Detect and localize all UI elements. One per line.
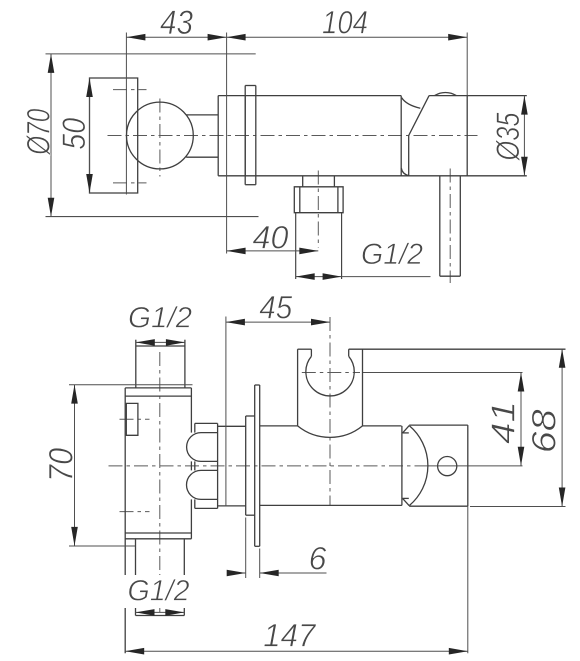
svg-text:41: 41	[485, 401, 522, 444]
svg-text:G1/2: G1/2	[361, 238, 423, 271]
svg-text:104: 104	[322, 5, 368, 41]
svg-text:Ø70: Ø70	[20, 109, 56, 156]
svg-text:43: 43	[160, 4, 193, 42]
svg-text:50: 50	[56, 118, 92, 150]
svg-text:G1/2: G1/2	[128, 575, 190, 608]
svg-text:6: 6	[309, 541, 327, 577]
svg-text:40: 40	[253, 220, 289, 256]
svg-text:G1/2: G1/2	[128, 302, 192, 335]
svg-text:45: 45	[259, 290, 292, 326]
svg-text:68: 68	[525, 409, 563, 453]
svg-text:Ø35: Ø35	[490, 112, 526, 161]
svg-text:70: 70	[43, 448, 81, 482]
svg-text:147: 147	[263, 618, 316, 654]
